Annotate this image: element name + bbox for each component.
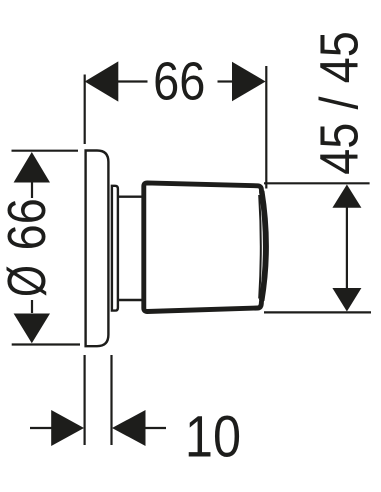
dimension line 10 left tail — [30, 427, 52, 429]
svg-text:Ø: Ø — [0, 265, 57, 297]
arrow diameter 66 top — [14, 152, 50, 183]
extension line top (diameter 66) — [12, 150, 79, 152]
dimension line 66 right segment — [218, 80, 233, 82]
arrow 66 right — [232, 62, 266, 102]
dimension line 45/45 — [346, 208, 348, 289]
svg-text:10: 10 — [185, 404, 241, 469]
dimension line diameter 66 top segment — [31, 183, 33, 199]
sleeve ring — [112, 186, 118, 311]
svg-text:66: 66 — [153, 50, 205, 111]
extension line top (45/45 height) — [264, 182, 370, 184]
knob front edge inner curve — [259, 195, 261, 299]
arrow 10 left — [51, 410, 84, 446]
extension line right (10 depth) — [110, 355, 112, 445]
arrow diameter 66 bottom — [14, 314, 50, 344]
arrow 45/45 top — [332, 185, 361, 208]
arrow 45/45 bottom — [332, 288, 361, 312]
svg-text:66: 66 — [0, 198, 57, 250]
extension line left (10 depth) — [83, 355, 85, 445]
extension line left (66 width) — [84, 75, 86, 145]
dimension line diameter 66 bottom segment — [31, 300, 33, 313]
neck top line — [118, 195, 143, 197]
extension line right (66 width) — [265, 66, 267, 189]
svg-text:45 / 45: 45 / 45 — [308, 31, 369, 175]
dimension line 66 left segment — [118, 80, 148, 82]
arrow 66 left — [85, 61, 119, 101]
neck bottom line — [118, 299, 143, 301]
dimension line 10 right tail — [146, 427, 167, 429]
arrow 10 right — [112, 410, 146, 446]
knob right silhouette thickening — [262, 191, 266, 301]
escutcheon plate (side view) — [86, 151, 109, 347]
extension line bottom (45/45 height) — [264, 311, 371, 313]
extension line bottom (diameter 66) — [12, 343, 80, 345]
knob body — [144, 183, 266, 312]
